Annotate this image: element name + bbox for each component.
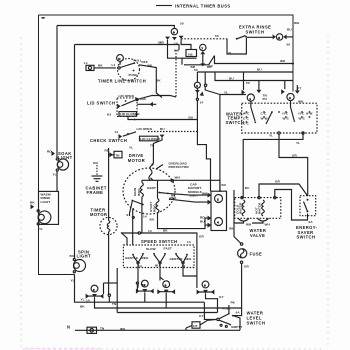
svg-text:YL: YL	[296, 141, 300, 145]
svg-text:YL: YL	[129, 145, 133, 149]
speed switch	[123, 239, 194, 268]
svg-text:GR: GR	[199, 235, 205, 239]
switch HS box	[182, 50, 197, 59]
svg-text:L1: L1	[112, 63, 116, 67]
svg-text:VALVE: VALVE	[250, 233, 265, 238]
svg-text:H-W: H-W	[306, 111, 313, 115]
svg-text:50: 50	[194, 68, 198, 72]
terminal 10	[136, 280, 154, 302]
svg-text:MOTOR: MOTOR	[128, 158, 145, 163]
svg-text:GENT: GENT	[147, 186, 156, 190]
wire: terminal4 top area	[195, 88, 211, 191]
svg-text:INTERNAL TIMER BUSS: INTERNAL TIMER BUSS	[175, 3, 231, 8]
timer line switch	[98, 55, 161, 84]
svg-text:W-C: W-C	[243, 111, 250, 115]
wire: overload to terminal 2	[151, 178, 221, 192]
svg-text:4A: 4A	[236, 311, 241, 315]
svg-text:BU: BU	[160, 127, 165, 131]
svg-text:9: 9	[173, 31, 175, 35]
terminal 2 bottom row	[80, 285, 103, 308]
svg-text:YL: YL	[53, 172, 57, 176]
svg-text:4: 4	[196, 84, 198, 88]
terminal 5	[273, 21, 300, 47]
terminal 8	[157, 276, 175, 308]
wire: timer switch to lid switch	[139, 65, 162, 98]
svg-text:YL: YL	[269, 134, 273, 138]
wire: third top bus	[75, 45, 180, 51]
svg-text:YL: YL	[224, 91, 228, 95]
cap export models only	[188, 183, 202, 198]
svg-text:W-W: W-W	[261, 116, 268, 120]
svg-text:TIMER LINE SWITCH: TIMER LINE SWITCH	[98, 78, 146, 83]
svg-text:LID OPEN: LID OPEN	[119, 94, 135, 98]
wire: lid switch output to terminal4 drop	[134, 119, 136, 121]
wire: second bus drop to soak light	[56, 26, 58, 159]
connector HT	[186, 302, 217, 328]
water temp contacts	[243, 107, 313, 145]
svg-text:BK: BK	[98, 63, 103, 67]
svg-text:14: 14	[148, 229, 152, 233]
wire: hot valve top runs	[259, 184, 308, 198]
svg-text:3: 3	[289, 96, 291, 100]
svg-text:14: 14	[143, 214, 147, 218]
svg-text:WH: WH	[294, 21, 300, 25]
svg-text:LID OPEN: LID OPEN	[137, 127, 153, 131]
svg-text:2: 2	[93, 288, 95, 292]
overload protector	[149, 161, 190, 180]
svg-text:C-C: C-C	[261, 111, 267, 115]
svg-text:50: 50	[209, 64, 213, 68]
lid switch	[87, 94, 156, 116]
wire: extra rinse dashed feed	[181, 38, 227, 40]
svg-text:TN: TN	[112, 302, 117, 306]
svg-text:BU: BU	[150, 217, 155, 221]
wash rinse light	[30, 191, 59, 231]
wire: terminal7 down to junction	[202, 54, 204, 65]
wire: bus BU lower	[215, 72, 293, 81]
motor internal contacts	[127, 186, 177, 245]
svg-text:FRAME: FRAME	[87, 190, 104, 195]
terminal 7	[200, 44, 206, 54]
svg-text:EMPTY: EMPTY	[231, 325, 243, 329]
wire: dashed internal buss drop	[175, 50, 177, 97]
svg-text:GR: GR	[244, 264, 250, 268]
wire: water temp to energy saver	[279, 134, 308, 196]
terminal 2	[168, 192, 223, 205]
terminal 3	[281, 81, 304, 108]
terminal 4 lower	[200, 216, 223, 228]
svg-text:WH: WH	[174, 49, 180, 53]
svg-text:SLOW: SLOW	[146, 247, 156, 251]
svg-text:BU: BU	[160, 41, 165, 45]
wire: start winding to terminal4	[158, 213, 206, 229]
svg-text:TB: TB	[115, 154, 120, 158]
svg-text:PUSH: PUSH	[129, 73, 139, 77]
svg-text:1: 1	[249, 97, 251, 101]
soak light	[47, 149, 73, 191]
svg-text:FT: FT	[298, 86, 302, 90]
svg-text:GR: GR	[275, 179, 281, 183]
svg-text:14: 14	[174, 41, 178, 45]
svg-text:W-C: W-C	[299, 116, 306, 120]
svg-text:GY: GY	[219, 295, 225, 299]
svg-text:FAST: FAST	[164, 247, 172, 251]
svg-text:SWITCH: SWITCH	[247, 320, 266, 325]
svg-text:2: 2	[217, 198, 219, 202]
svg-text:50: 50	[287, 43, 291, 47]
svg-text:BK: BK	[80, 305, 85, 309]
svg-text:14: 14	[200, 100, 204, 104]
wire: term2 stem to bus	[95, 297, 242, 308]
svg-text:4: 4	[217, 221, 219, 225]
svg-text:L1: L1	[84, 61, 88, 65]
svg-text:YL: YL	[39, 227, 43, 231]
svg-text:14: 14	[187, 240, 191, 244]
svg-text:FULL: FULL	[223, 307, 231, 311]
svg-text:YL: YL	[81, 298, 85, 302]
svg-text:H-C: H-C	[283, 111, 289, 115]
svg-text:9: 9	[127, 213, 129, 217]
wire: cold valve feed	[243, 134, 303, 197]
cabinet frame ground	[86, 161, 107, 195]
svg-text:WH: WH	[246, 223, 252, 227]
extra rinse switch	[227, 25, 273, 54]
timer motor	[90, 148, 117, 295]
svg-text:BU: BU	[287, 27, 292, 31]
svg-text:FUSE: FUSE	[250, 251, 263, 256]
svg-text:SWITCH: SWITCH	[246, 30, 265, 35]
wire: third bus drop to spin light	[74, 45, 76, 259]
svg-text:C-C: C-C	[243, 121, 249, 125]
svg-text:LID CLOSED: LID CLOSED	[140, 137, 160, 141]
water valve	[235, 196, 281, 238]
svg-text:PU: PU	[263, 97, 268, 101]
corner mark	[42, 17, 45, 19]
svg-text:BK: BK	[148, 64, 153, 68]
svg-text:BU: BU	[245, 186, 250, 190]
svg-text:PROTECTOR: PROTECTOR	[169, 165, 190, 169]
svg-text:GN: GN	[93, 161, 99, 165]
svg-text:TN: TN	[100, 326, 105, 330]
wire: lid sw 13A up-right	[137, 96, 176, 100]
svg-text:H3: H3	[107, 113, 111, 117]
svg-text:BU: BU	[222, 183, 227, 187]
svg-text:BU: BU	[257, 68, 262, 72]
svg-text:C-C: C-C	[243, 116, 249, 120]
water temp switch	[226, 103, 318, 133]
svg-text:N: N	[67, 325, 70, 330]
svg-text:GR: GR	[292, 154, 298, 158]
svg-text:WH: WH	[229, 227, 235, 231]
svg-text:WATER: WATER	[258, 202, 262, 214]
terminal 9	[160, 28, 184, 45]
wire: left small verticals	[103, 283, 105, 294]
svg-text:BU: BU	[70, 254, 75, 258]
wire: fuse line to water level	[233, 308, 242, 316]
svg-text:SWITCH: SWITCH	[297, 235, 316, 240]
wire: second top bus	[57, 26, 174, 29]
svg-text:GY: GY	[199, 314, 205, 318]
wire: motor to speed switch drops	[121, 233, 127, 246]
svg-text:6: 6	[204, 284, 206, 288]
svg-text:CHECK SWITCH: CHECK SWITCH	[90, 138, 127, 143]
svg-text:LIGHT: LIGHT	[41, 200, 51, 204]
energy saver switch	[296, 196, 318, 240]
svg-text:BK: BK	[163, 229, 168, 233]
svg-text:TN: TN	[150, 143, 155, 147]
svg-text:5: 5	[278, 36, 280, 40]
svg-text:HS: HS	[188, 52, 193, 56]
svg-text:LID CLOSED: LID CLOSED	[120, 112, 140, 116]
svg-text:HT: HT	[193, 324, 197, 328]
main winding	[133, 180, 143, 233]
svg-text:WH: WH	[265, 223, 271, 227]
svg-text:BU: BU	[229, 77, 234, 81]
wire: terminal7 top bend to border	[181, 39, 191, 50]
terminal 1	[242, 72, 268, 107]
terminal 6	[197, 281, 225, 312]
svg-text:REG: REG	[142, 256, 149, 260]
svg-text:PK: PK	[231, 301, 236, 305]
wire: run to right border WH	[215, 56, 294, 64]
svg-text:6A: 6A	[309, 220, 314, 224]
svg-text:WH: WH	[175, 175, 181, 179]
wire: left border down to bottom-left	[39, 15, 75, 275]
neutral line	[67, 316, 240, 334]
fuse	[238, 243, 263, 308]
svg-text:LIGHT: LIGHT	[77, 253, 92, 258]
wire: valve commons to fuse	[234, 221, 244, 244]
start winding	[149, 180, 159, 213]
svg-text:10: 10	[142, 283, 146, 287]
svg-text:W-C: W-C	[283, 116, 290, 120]
wire: bus BU upper	[197, 71, 293, 73]
svg-text:LID SWITCH: LID SWITCH	[87, 101, 115, 106]
svg-text:RD: RD	[47, 149, 52, 153]
wire: TB stub to timer motor line	[109, 154, 114, 156]
svg-text:D: D	[118, 57, 121, 61]
svg-text:50: 50	[180, 22, 184, 26]
connector block terminals 2 and 4	[211, 191, 227, 230]
wire: speed switch pivots to terminals	[137, 264, 139, 288]
wire: lower junction run	[184, 56, 215, 65]
terminal 4 upper	[194, 72, 206, 88]
svg-text:50: 50	[246, 81, 250, 85]
wire: terminal9 left leg to HS loop	[168, 40, 183, 65]
connector TB	[105, 148, 123, 158]
svg-text:7: 7	[201, 47, 203, 51]
wire: top border bus L1	[39, 15, 294, 92]
water level switch	[217, 301, 266, 329]
svg-text:BK: BK	[30, 200, 35, 204]
check switch	[90, 127, 197, 164]
svg-text:BU: BU	[189, 115, 194, 119]
svg-text:WH: WH	[280, 59, 286, 63]
svg-text:SPEED SWITCH: SPEED SWITCH	[141, 239, 178, 244]
connector L1	[84, 61, 116, 71]
svg-text:50: 50	[215, 34, 219, 38]
svg-text:H-C: H-C	[299, 111, 305, 115]
svg-text:YL: YL	[71, 278, 75, 282]
decorative dotted page edges	[20, 35, 329, 350]
spin light	[70, 249, 92, 273]
svg-text:8: 8	[165, 283, 167, 287]
wire: water temp feed	[220, 94, 246, 96]
svg-text:14: 14	[115, 130, 119, 134]
svg-text:MOTOR: MOTOR	[90, 212, 107, 217]
wire: spin light leg to bus	[75, 275, 205, 303]
drive motor	[123, 153, 175, 214]
legend: internal timer buss	[156, 3, 231, 8]
